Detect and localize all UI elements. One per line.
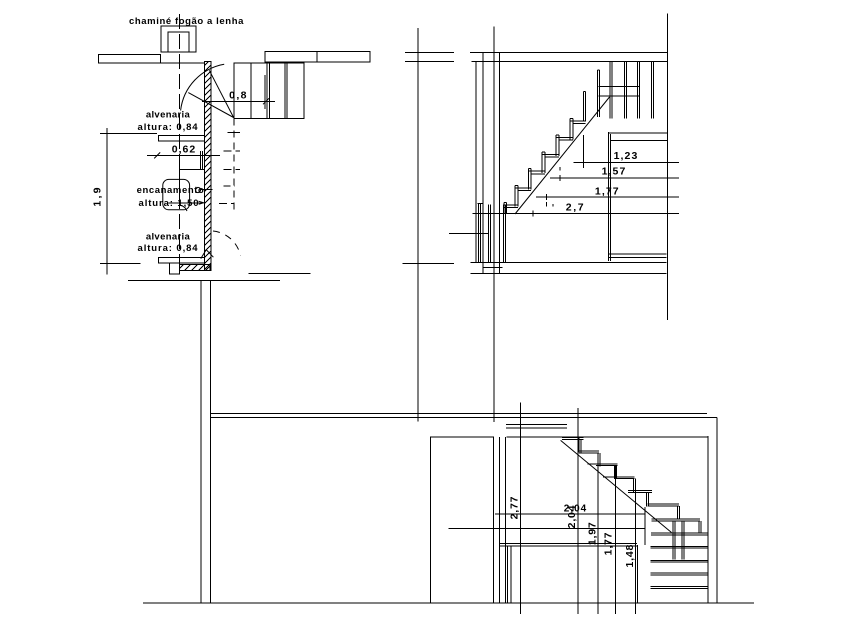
stair riser R4 bbox=[556, 135, 559, 156]
interior wall line a bbox=[499, 437, 501, 603]
water tank rounded rectangle bbox=[163, 179, 190, 209]
top slab line 2 left segment bbox=[405, 61, 454, 63]
tread B3 bbox=[588, 464, 618, 466]
dashed ledge stub y150 bbox=[224, 150, 241, 152]
lower room box left wall bbox=[608, 132, 610, 261]
hatched strip bottom bbox=[179, 264, 210, 270]
stair riser R5 bbox=[570, 118, 573, 139]
svg-text:encanamento: encanamento bbox=[137, 185, 205, 196]
stove slat line 5 bbox=[286, 63, 288, 119]
wall right line bbox=[210, 280, 212, 603]
cabinet rectangle A above stove bbox=[265, 51, 317, 62]
svg-text:2,7: 2,7 bbox=[566, 202, 585, 214]
dim line 1,77 bbox=[536, 196, 679, 198]
stair stringer diagonal (dotted) bbox=[515, 97, 610, 214]
lower room box top bold bbox=[608, 132, 667, 134]
top slab line 1 bbox=[470, 51, 668, 53]
right wall line bbox=[666, 14, 668, 320]
lower room box ceiling line bbox=[611, 139, 668, 141]
beam double line bbox=[500, 544, 638, 547]
riser B1 bbox=[579, 438, 581, 453]
baluster 3 bbox=[638, 62, 640, 118]
top slab line 2 bbox=[471, 61, 667, 63]
svg-text:alvenaria: alvenaria bbox=[146, 110, 191, 121]
svg-text:1,77: 1,77 bbox=[595, 186, 620, 198]
shelf 1 rectangle bbox=[159, 136, 205, 142]
level lines end vertical bbox=[644, 507, 646, 545]
level line B bbox=[449, 527, 646, 529]
counter rectangle left bbox=[99, 55, 161, 63]
svg-text:0,62: 0,62 bbox=[172, 143, 196, 155]
svg-text:chaminé fogão a lenha: chaminé fogão a lenha bbox=[129, 16, 244, 27]
dim tick 1,57 bbox=[559, 175, 561, 181]
dim extension x615 bbox=[614, 466, 616, 614]
stair tread T4 bbox=[556, 138, 573, 141]
dim stub below 2,7 bbox=[552, 204, 554, 206]
svg-text:1,23: 1,23 bbox=[614, 150, 639, 162]
svg-text:1,9: 1,9 bbox=[92, 185, 104, 206]
newel post 1 bbox=[583, 92, 585, 122]
dimension 0,8 line bbox=[202, 100, 275, 102]
stair tread T1 bbox=[515, 188, 531, 191]
tread B6 bbox=[647, 504, 679, 506]
dashed ledge stub y203 bbox=[219, 203, 234, 205]
railing post 1 bbox=[673, 521, 675, 560]
stair tread T2 bbox=[528, 171, 545, 174]
stove box in plan bbox=[234, 63, 304, 119]
tread B5 bbox=[628, 490, 652, 492]
left wall line b bbox=[482, 52, 484, 273]
wall footing cap bbox=[478, 203, 483, 205]
svg-text:1,77: 1,77 bbox=[603, 532, 615, 556]
stove slat line 1 bbox=[250, 63, 252, 119]
riser B2 bbox=[598, 453, 600, 466]
top slab lower line bbox=[211, 417, 717, 419]
riser B6 bbox=[678, 506, 680, 519]
stair tread T3 bbox=[542, 154, 559, 157]
shelf line 1 bbox=[651, 546, 708, 548]
left wall footing pair 3 bbox=[503, 204, 505, 261]
svg-text:alvenaria: alvenaria bbox=[146, 232, 191, 243]
stair riser R3 bbox=[542, 152, 545, 173]
tread B4 bbox=[603, 477, 634, 479]
interior wall line b bbox=[505, 437, 507, 603]
svg-text:1,48: 1,48 bbox=[624, 544, 636, 568]
tread B8 bbox=[651, 533, 708, 535]
dashed ledge vertical right of wall bbox=[233, 119, 235, 212]
dashed ledge stub y132 bbox=[227, 131, 240, 133]
shelf line 4 bbox=[651, 587, 708, 589]
dashed ledge stub y186 bbox=[223, 185, 235, 187]
baluster 1 bbox=[610, 62, 612, 118]
svg-text:altura: 0,84: altura: 0,84 bbox=[138, 122, 199, 133]
chimney centerline (dashed) bbox=[179, 14, 181, 264]
door swing arc bbox=[181, 64, 225, 110]
riser B3 bbox=[615, 466, 617, 479]
left wall footing pair 1 bbox=[478, 204, 480, 263]
stove slat line 4 bbox=[284, 63, 286, 119]
counter bottom line to wall bbox=[161, 62, 205, 64]
right wall outer bbox=[716, 418, 718, 603]
door leaf line 2 bbox=[188, 93, 233, 118]
ceiling line bbox=[507, 436, 708, 438]
dim extension x598 bbox=[597, 453, 599, 614]
floor line 1 bbox=[471, 261, 667, 263]
grid vertical line A bbox=[417, 28, 419, 421]
mid level line at left bbox=[449, 232, 489, 234]
beam support vertical a bbox=[507, 546, 509, 603]
handrail upper bbox=[598, 86, 639, 88]
newel post 2 bbox=[597, 70, 599, 117]
svg-text:2,04: 2,04 bbox=[566, 505, 578, 529]
lower room box bottom double bbox=[608, 253, 666, 255]
svg-text:0,8: 0,8 bbox=[229, 90, 248, 102]
thick jamb line bbox=[636, 545, 638, 603]
door leaf line 1 bbox=[209, 70, 233, 117]
beam support vertical b bbox=[510, 546, 512, 603]
top slab upper line bbox=[211, 412, 708, 414]
stove slat line 2 bbox=[266, 63, 268, 119]
left wall footing pair 2 bbox=[488, 204, 490, 261]
dim tick 2,7 bbox=[532, 211, 534, 217]
riser B7 bbox=[699, 521, 701, 533]
baluster 4 bbox=[652, 62, 654, 118]
landing slab bar bbox=[506, 425, 567, 428]
cabinet open rectangle at wall bbox=[179, 170, 204, 205]
dimension 1,9 bottom tick line bbox=[100, 262, 140, 264]
top slab line 1 left segment bbox=[405, 51, 454, 53]
left wall line c bbox=[498, 52, 500, 273]
handrail lower bbox=[598, 95, 639, 97]
shelf 2 rectangle bbox=[159, 258, 205, 263]
stair riser R2 bbox=[528, 169, 531, 190]
dimension 0,62 tick bbox=[154, 152, 160, 158]
dim extension x520 bbox=[519, 403, 521, 614]
door opening rectangle bbox=[431, 437, 494, 603]
pipe chase vertical pair in wall bbox=[200, 151, 202, 170]
chimney inner box bbox=[168, 32, 189, 52]
tread B7 bbox=[651, 519, 700, 521]
stair riser R1 bbox=[515, 186, 518, 207]
stair tread T5 bbox=[570, 121, 585, 124]
leader arrow altura 1,50 bbox=[169, 202, 204, 204]
floor level stub line left of section bbox=[402, 263, 454, 265]
riser B5 bbox=[647, 493, 649, 507]
dim extension x635 bbox=[635, 479, 637, 614]
ground line bbox=[143, 602, 754, 604]
wall hatch column bbox=[204, 62, 211, 271]
tread B1 bbox=[562, 438, 584, 440]
svg-text:2,77: 2,77 bbox=[509, 496, 521, 520]
tread B2 bbox=[579, 451, 599, 453]
railing post 2 bbox=[682, 521, 684, 560]
dim stub below 1,77 bbox=[545, 202, 547, 206]
stove slat line 3 bbox=[268, 63, 270, 119]
dim stub above 1,57 bbox=[559, 167, 561, 171]
dimension 1,9 vertical line bbox=[106, 128, 108, 274]
dashed swing arc lower bbox=[213, 231, 241, 256]
leader squiggle bbox=[181, 206, 187, 212]
baluster 2 bbox=[625, 62, 627, 118]
dim line 2,7 (slab level) bbox=[472, 213, 679, 215]
small box below shelf 2 bbox=[169, 263, 179, 274]
check mark at wall bottom bbox=[201, 250, 214, 259]
dim tick 1,77 bbox=[545, 194, 547, 200]
pipe circle symbol bbox=[195, 187, 200, 192]
stair riser R0 bbox=[504, 202, 507, 213]
grid vertical line B bbox=[493, 27, 495, 422]
dimension 0,8 tick bbox=[263, 98, 269, 104]
shelf line 2 bbox=[651, 560, 708, 562]
dimension 0,62 line bbox=[147, 154, 220, 156]
chimney outer box bbox=[161, 26, 196, 52]
dim line 1,57 bbox=[550, 177, 679, 179]
dim extension from landing bbox=[583, 135, 585, 168]
svg-text:1,97: 1,97 bbox=[587, 521, 599, 545]
stair diagonal (dotted) bbox=[561, 440, 672, 532]
svg-text:altura: 0,84: altura: 0,84 bbox=[138, 243, 199, 254]
dim extension x578 bbox=[577, 408, 579, 614]
dimension 0,8 extension line bbox=[264, 75, 266, 109]
stair tread T0 bbox=[504, 205, 518, 208]
dim line 1,23 bbox=[573, 161, 679, 163]
svg-text:1,57: 1,57 bbox=[602, 166, 627, 178]
riser B4 bbox=[633, 479, 635, 492]
shelf line 3 bbox=[651, 573, 708, 575]
pipe leader line bbox=[200, 188, 212, 190]
right wall inner bbox=[707, 436, 709, 603]
floor line below chimney section bbox=[128, 279, 280, 281]
floor line 2 bbox=[471, 273, 667, 275]
dimension 1,9 top tick line bbox=[100, 133, 157, 135]
wall left line bbox=[200, 280, 202, 603]
level line A bbox=[495, 513, 645, 515]
short floor line right of wall bbox=[248, 272, 310, 274]
stove box top bold segment bbox=[266, 61, 304, 63]
dashed ledge stub y169 bbox=[224, 168, 241, 170]
leader arrowhead bbox=[199, 201, 204, 204]
cabinet rectangle B above stove bbox=[317, 51, 370, 62]
left wall line a bbox=[475, 62, 477, 263]
small step line between floors bbox=[484, 267, 503, 269]
